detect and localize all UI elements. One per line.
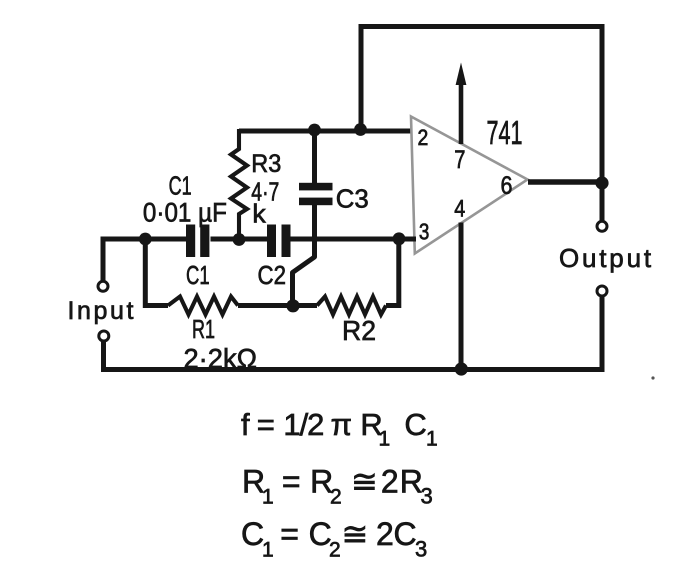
node R3 bottom junction	[233, 233, 246, 246]
capacitor C2	[267, 225, 291, 258]
svg-text:R3: R3	[251, 150, 281, 178]
svg-text:Output: Output	[559, 243, 654, 273]
node feedback/pin2 junction	[354, 123, 367, 136]
resistor R3	[231, 129, 247, 241]
svg-text:6: 6	[501, 172, 513, 200]
resistor R1	[168, 297, 238, 315]
wire output node to upper output terminal	[600, 183, 605, 221]
svg-text:3: 3	[419, 219, 430, 245]
svg-text:741: 741	[487, 114, 523, 151]
wire R2 right riser up to pin3 rail	[386, 239, 399, 306]
node R1/R2/C3 junction	[286, 299, 299, 312]
wire R1 to R2 link	[238, 303, 317, 308]
wire op-amp output stub	[528, 179, 602, 185]
svg-text:2: 2	[418, 125, 429, 150]
terminal output lower	[597, 286, 607, 296]
svg-text:7: 7	[454, 146, 465, 174]
node C3 top junction	[308, 124, 321, 137]
svg-text:C1: C1	[169, 170, 192, 200]
pin 4 V- lead down to bottom rail	[459, 223, 464, 370]
wire rail from C2 to pin 3	[291, 237, 417, 242]
op-amp U1 741 triangle	[411, 117, 528, 254]
node R2/pin3 junction	[393, 232, 406, 245]
wire C3 bottom lead down to R1/R2 junction	[293, 204, 315, 306]
svg-text:k: k	[252, 199, 266, 229]
svg-text:C1: C1	[186, 260, 210, 290]
terminal input lower	[99, 331, 109, 341]
node input/R1 junction	[139, 233, 152, 246]
wire rail between C1 and C2	[211, 237, 268, 242]
resistor R2	[317, 297, 386, 315]
svg-text:R1: R1	[192, 314, 215, 344]
wire R1 left drop from input node	[145, 239, 168, 306]
svg-text:R2: R2	[342, 315, 376, 346]
wire bottom rail	[101, 367, 605, 372]
svg-text:C3: C3	[336, 184, 369, 214]
speck artifact	[651, 376, 654, 379]
wire pin 2 input lead	[239, 129, 416, 134]
node pin4/bottom-rail junction	[455, 362, 468, 375]
capacitor C1	[186, 225, 209, 258]
node output junction	[595, 176, 608, 189]
wire feedback loop from pin2 node over the top to output node	[361, 27, 602, 184]
svg-text:C2: C2	[258, 260, 287, 290]
capacitor C3	[299, 183, 333, 205]
svg-text:4: 4	[454, 196, 465, 223]
terminal output upper	[597, 221, 607, 231]
pin 7 V+ supply arrow	[456, 63, 467, 145]
wire input rail to C1 (with input terminal riser)	[103, 239, 187, 281]
terminal input upper	[98, 281, 108, 291]
wire input lower lead to bottom rail	[101, 342, 106, 368]
wire output lower lead to bottom rail	[600, 297, 605, 368]
svg-text:0·01 µF: 0·01 µF	[143, 197, 227, 227]
svg-text:Input: Input	[68, 297, 137, 325]
wire C3 top lead	[312, 129, 317, 184]
